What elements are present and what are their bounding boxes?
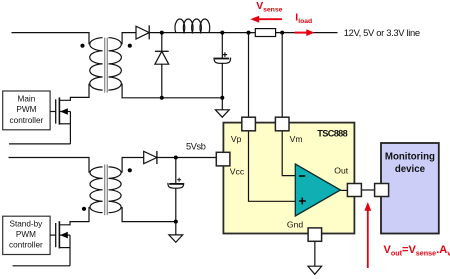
junction dot rail-C1 bbox=[220, 31, 224, 35]
pin Gnd bbox=[308, 228, 322, 241]
junction dot return-C1 bbox=[220, 96, 224, 100]
svg-text:device: device bbox=[395, 164, 426, 175]
transistor Q1 MOSFET bbox=[50, 97, 70, 143]
pin Vp bbox=[242, 117, 256, 131]
svg-text:controller: controller bbox=[9, 241, 43, 250]
junction dot 5Vsb-C2 bbox=[174, 156, 178, 160]
resistor Rsense shunt bbox=[255, 29, 275, 37]
T2 primary polarity dot bbox=[82, 207, 86, 211]
junction dot return-D2 bbox=[160, 96, 164, 100]
svg-text:Vp: Vp bbox=[231, 134, 242, 144]
svg-text:controller: controller bbox=[10, 116, 44, 125]
T2 secondary polarity dot bbox=[128, 168, 132, 172]
label Monitoring device bbox=[385, 152, 435, 176]
wire op-amp output to Out pin bbox=[340, 189, 347, 191]
svg-text:Main: Main bbox=[18, 94, 36, 103]
svg-text:Monitoring: Monitoring bbox=[385, 152, 435, 163]
wire T2 primary top lead bbox=[9, 158, 90, 173]
wire T2 secondary bottom lead bbox=[122, 207, 176, 222]
wire Out pin to monitoring pin bbox=[361, 189, 374, 191]
ground G1 bbox=[215, 98, 229, 117]
wire 5Vsb net bbox=[157, 157, 217, 159]
transformer T1 core bbox=[105, 38, 108, 93]
svg-text:5Vsb: 5Vsb bbox=[186, 141, 206, 151]
wire Gnd pin to ground bbox=[314, 241, 316, 266]
diode D2 freewheel bbox=[155, 33, 169, 98]
wire T2 primary bottom lead to Q2 drain bbox=[59, 207, 89, 225]
pin Vcc bbox=[216, 152, 230, 166]
diode D3 standby rectifier bbox=[144, 151, 157, 164]
op-amp U1 triangle bbox=[295, 164, 340, 216]
capacitor C1 output bbox=[214, 33, 231, 98]
svg-text:Vcc: Vcc bbox=[230, 167, 245, 177]
junction dot T2 return bbox=[174, 220, 178, 224]
monitoring device box bbox=[381, 143, 439, 234]
svg-text:Vm: Vm bbox=[290, 134, 303, 144]
wire Q1 source return bbox=[9, 143, 70, 145]
transformer T2 secondary winding bbox=[109, 167, 122, 213]
junction dot rail-Vp sense bbox=[247, 31, 251, 35]
ground G3 bbox=[308, 266, 322, 274]
wire T1 primary top lead bbox=[12, 33, 90, 45]
svg-text:PWM: PWM bbox=[16, 230, 36, 239]
wire T2 secondary top lead bbox=[122, 158, 144, 173]
ground G2 bbox=[169, 222, 183, 243]
svg-text:TSC888: TSC888 bbox=[317, 129, 347, 139]
diode D1 output rectifier bbox=[136, 25, 149, 39]
transformer T2 core bbox=[105, 164, 108, 215]
wire Q2 source return bbox=[13, 265, 71, 267]
wire Vm sense bbox=[281, 33, 283, 118]
wire T1 primary bottom lead to Q1 drain bbox=[59, 84, 89, 101]
pin Vm bbox=[275, 117, 289, 131]
svg-text:Stand-by: Stand-by bbox=[10, 220, 44, 229]
junction dot rail-Vm sense bbox=[280, 31, 284, 35]
arrow Iload red right bbox=[295, 29, 315, 36]
pin Out bbox=[347, 184, 361, 197]
wire T1 secondary bottom lead / secondary return rail bbox=[122, 84, 222, 98]
svg-text:PWM: PWM bbox=[16, 105, 36, 114]
pin monitoring input bbox=[375, 184, 389, 197]
arrow Vout red up bbox=[364, 202, 371, 268]
Main PWM controller box bbox=[3, 91, 50, 130]
Stand-by PWM controller box bbox=[3, 216, 50, 254]
wire op-amp non-inverting input from Vp bbox=[249, 131, 296, 201]
arrow Vsense red left bbox=[250, 16, 282, 23]
wire output rail bbox=[149, 32, 337, 34]
IC U1 TSC888 body bbox=[223, 123, 354, 234]
T1 primary polarity dot bbox=[80, 44, 84, 48]
transformer T1 primary winding bbox=[90, 38, 103, 90]
wire T1 secondary top lead bbox=[122, 33, 136, 45]
transformer T2 primary winding bbox=[90, 167, 103, 213]
wire op-amp inverting input from Vm bbox=[282, 131, 295, 176]
transistor Q2 MOSFET bbox=[50, 221, 70, 266]
transformer T1 secondary winding bbox=[109, 38, 122, 90]
svg-text:Gnd: Gnd bbox=[287, 220, 303, 230]
svg-text:12V, 5V or 3.3V line: 12V, 5V or 3.3V line bbox=[344, 27, 420, 38]
T1 secondary polarity dot bbox=[128, 44, 132, 48]
svg-text:Out: Out bbox=[334, 166, 348, 176]
wire Vp sense bbox=[248, 33, 250, 118]
capacitor C2 standby bbox=[168, 158, 184, 222]
junction dot rail-D2 bbox=[160, 31, 164, 35]
inductor L1 bbox=[175, 19, 210, 32]
